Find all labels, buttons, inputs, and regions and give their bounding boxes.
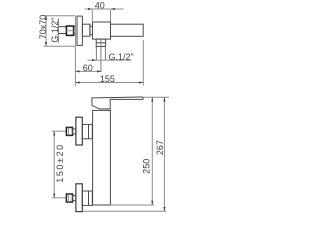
dimension 70x70: top extension line xyxy=(44,15,76,17)
escutcheon plate (edge view) xyxy=(77,16,82,45)
svg-text:40: 40 xyxy=(95,1,105,11)
upper inlet: stub xyxy=(73,129,76,134)
valve body (top view) xyxy=(93,22,111,39)
svg-text:150±20: 150±20 xyxy=(55,143,65,183)
label G.1/2 left: underline xyxy=(58,18,60,43)
lower inlet: stub xyxy=(73,196,76,201)
lever handle outline xyxy=(92,97,143,109)
connector block xyxy=(82,24,90,36)
dimension 40: right extension line xyxy=(110,10,112,23)
svg-text:70x70: 70x70 xyxy=(38,15,48,40)
lower inlet: flange plate xyxy=(76,184,82,212)
label G.1/2 (nipple leader) xyxy=(88,59,132,61)
svg-text:G.1/2": G.1/2" xyxy=(109,52,134,62)
upper inlet: hex nut xyxy=(66,127,72,135)
svg-text:60: 60 xyxy=(83,63,93,73)
dimension 40: left arrowhead xyxy=(88,8,92,10)
dimension 40: dim line xyxy=(85,8,124,10)
inlet pipe (top view) xyxy=(59,26,67,28)
dimension 250: bottom arrowhead xyxy=(151,201,153,205)
nipple hidden line left xyxy=(95,47,97,61)
dimension 60: right arrowhead xyxy=(97,70,101,72)
dimension 155: dim line xyxy=(75,82,143,84)
dimension 60: left arrowhead (outside) xyxy=(75,70,79,72)
dimension 70x70: top arrowhead xyxy=(45,16,47,20)
outlet nipple (top view) xyxy=(96,39,105,46)
dimension 267: top arrowhead xyxy=(163,97,165,101)
hex nut (top view) xyxy=(66,26,73,35)
dimension 60: dim line xyxy=(75,70,101,72)
nut-to-wall ticks xyxy=(74,26,76,28)
lower inlet: connector xyxy=(82,191,92,205)
lower inlet: connector facet xyxy=(88,191,90,205)
lower inlet: center line xyxy=(52,197,66,199)
nipple center line xyxy=(100,39,102,72)
dimension 150±20: dim line xyxy=(53,131,55,198)
dimension 155: right arrowhead xyxy=(139,81,143,83)
dimension 70x70: bottom arrowhead xyxy=(45,42,47,46)
dimension 250: bottom extension line xyxy=(110,204,154,206)
svg-text:267: 267 xyxy=(155,140,165,155)
dimension 70x70: dim line xyxy=(45,16,47,47)
connector cap xyxy=(90,26,93,35)
nipple thread line xyxy=(96,42,105,44)
dimension 250: top arrowhead xyxy=(151,97,153,101)
dimension 267: dim line xyxy=(163,97,165,211)
svg-text:250: 250 xyxy=(142,159,152,174)
dimension 155: right extension line (from bar tip) xyxy=(142,40,144,86)
dimension 267: bottom extension line xyxy=(83,210,167,212)
handle top extension line xyxy=(144,96,170,98)
svg-text:155: 155 xyxy=(100,74,115,84)
mixer body (front view) xyxy=(93,110,111,205)
upper inlet: flange plate xyxy=(76,117,82,145)
upper inlet: connector facet xyxy=(88,124,90,138)
dimension 267: bottom arrowhead xyxy=(163,207,165,211)
dimension 70x70: bottom extension line xyxy=(44,45,76,47)
upper inlet: nut facet line xyxy=(68,127,70,135)
upper inlet: connector xyxy=(82,124,92,138)
nipple leader arrowhead xyxy=(92,59,96,61)
lower inlet: nut facet line xyxy=(68,194,70,202)
dimension 250: dim line xyxy=(151,97,153,205)
lower inlet: hex nut xyxy=(66,194,72,202)
dimension 150±20: top arrowhead xyxy=(53,131,55,135)
dimension 150±20: bottom arrowhead xyxy=(53,194,55,198)
hex nut mid facet line xyxy=(66,30,73,32)
dimension 155: left arrowhead xyxy=(75,81,79,83)
dimension 40: right arrowhead xyxy=(111,8,115,10)
dimension 40: left extension line xyxy=(91,10,93,21)
wall line xyxy=(74,16,76,86)
spout bar (top view) xyxy=(111,24,144,36)
nipple hidden line right xyxy=(104,47,106,61)
upper inlet: center line xyxy=(52,130,66,132)
